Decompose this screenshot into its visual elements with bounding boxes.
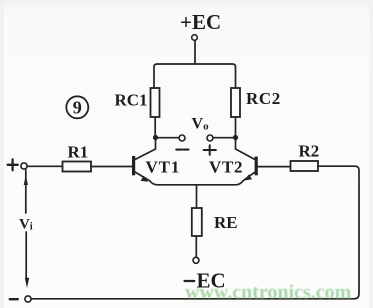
transistor VT2 collector lead [236,140,255,159]
transistor VT1 collector lead [136,140,156,159]
wire right output terminal to right collector [213,137,233,139]
transistor VT2 base bar [255,157,258,176]
resistor RC2 [231,88,240,117]
+EC terminal [192,35,198,41]
junction dot right collector node [233,135,238,140]
svg-text:VT1: VT1 [146,158,181,177]
output terminal left (minus) [179,135,185,141]
label -EC [185,280,195,282]
transistor VT1 emitter + shared emitter bus + transistor VT2 emitter [135,172,255,185]
resistor RC1 [151,88,160,117]
resistor RE [192,208,202,236]
Vi arrowhead down [25,278,29,288]
svg-text:9: 9 [73,97,82,117]
transistor VT1 emitter arrow [141,176,149,182]
wire emitter bus to RE [196,185,198,208]
input terminal left bottom [25,296,31,302]
input terminal left top [21,163,27,169]
Vi arrow line lower [25,232,27,278]
resistor R2 [291,161,319,171]
svg-text:RE: RE [214,213,238,232]
minus sign below left output terminal [176,149,188,151]
svg-text:www.cntronics.com: www.cntronics.com [185,282,352,304]
wire VT2 base to R2 [258,166,291,168]
minus sign input left bottom [10,298,18,300]
svg-text:R2: R2 [299,142,320,161]
wire +EC terminal to top bus [194,40,196,64]
resistor R1 [63,162,92,172]
plus sign input left [8,159,18,170]
Vi arrow line upper [25,170,27,213]
transistor VT1 base bar [132,156,135,175]
svg-text:VT2: VT2 [209,158,243,177]
output terminal right (plus) [207,135,213,141]
svg-text:+EC: +EC [180,10,221,34]
wire RC2 to collector node [235,117,237,138]
wire R1 to VT1 base [91,166,132,168]
junction dot left collector node [153,135,158,140]
Vi arrowhead up [24,175,28,185]
wire RE to -EC terminal [195,236,197,257]
svg-text:RC1: RC1 [115,91,148,110]
-EC terminal [193,257,199,263]
svg-text:RC2: RC2 [246,89,281,108]
wire top supply bus [154,64,236,88]
wire left collector to output terminal [158,137,179,139]
wire input terminal to R1 [27,165,62,167]
wire RC1 to collector node [154,117,156,138]
wire R2 right side down to bottom return [31,166,359,299]
transistor VT2 emitter arrow [244,174,252,180]
figure number 9 circle [66,96,88,118]
svg-text:R1: R1 [68,143,89,162]
plus sign below right output terminal [204,145,216,155]
